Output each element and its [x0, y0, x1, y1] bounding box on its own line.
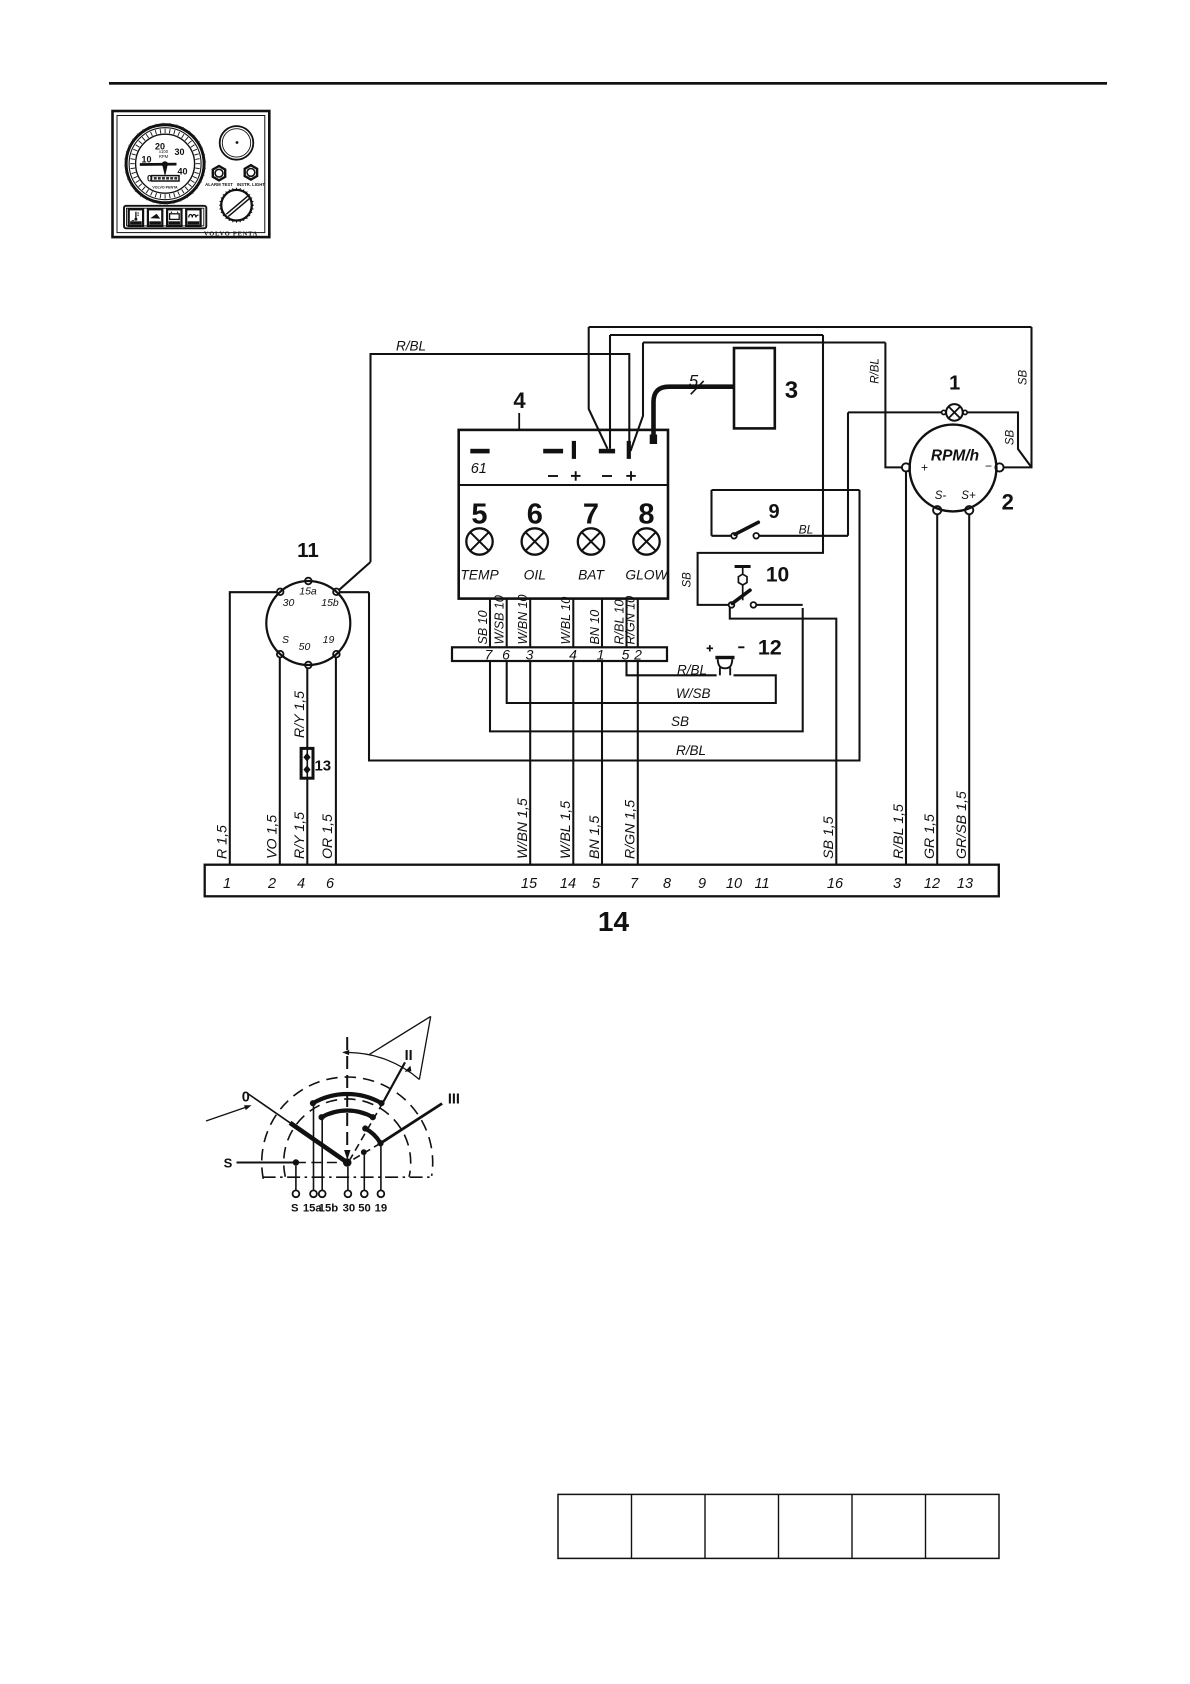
svg-text:INSTR. LIGHT: INSTR. LIGHT	[237, 182, 266, 187]
svg-text:16: 16	[827, 876, 844, 892]
svg-text:R 1,5: R 1,5	[214, 825, 230, 859]
svg-text:7: 7	[583, 499, 599, 531]
svg-text:15a: 15a	[299, 586, 317, 598]
svg-text:5: 5	[471, 499, 487, 531]
svg-text:50: 50	[299, 641, 311, 653]
svg-text:S: S	[282, 634, 289, 646]
svg-text:GR/SB 1,5: GR/SB 1,5	[954, 791, 970, 859]
svg-text:3: 3	[893, 876, 901, 892]
svg-text:3: 3	[785, 377, 798, 404]
svg-text:R/GN 10: R/GN 10	[624, 596, 638, 645]
svg-text:30: 30	[174, 147, 184, 157]
svg-text:50: 50	[358, 1203, 371, 1215]
svg-text:GLOW: GLOW	[625, 568, 669, 583]
svg-text:30: 30	[283, 597, 295, 609]
svg-text:5: 5	[689, 372, 699, 391]
svg-text:7: 7	[485, 647, 494, 663]
svg-text:W/BN 1,5: W/BN 1,5	[515, 798, 531, 859]
svg-text:0: 0	[242, 1090, 250, 1106]
svg-text:R/BL: R/BL	[396, 339, 426, 354]
svg-text:S-: S-	[935, 490, 947, 502]
svg-text:11: 11	[297, 539, 319, 562]
svg-text:RPM/h: RPM/h	[931, 448, 979, 465]
svg-text:W/BN 10: W/BN 10	[516, 594, 530, 644]
svg-text:SB: SB	[1018, 370, 1030, 386]
svg-text:4: 4	[513, 388, 526, 413]
svg-text:R/BL: R/BL	[676, 743, 706, 758]
svg-text:S: S	[291, 1203, 299, 1215]
svg-text:61: 61	[471, 461, 487, 477]
svg-text:S: S	[224, 1155, 233, 1170]
svg-text:OR 1,5: OR 1,5	[320, 814, 336, 859]
svg-text:2: 2	[1002, 489, 1014, 514]
svg-text:4: 4	[569, 647, 577, 663]
svg-text:14: 14	[598, 906, 630, 937]
svg-text:4: 4	[297, 876, 305, 892]
svg-text:+: +	[921, 461, 928, 475]
svg-text:2: 2	[267, 876, 276, 892]
svg-text:III: III	[448, 1092, 460, 1108]
svg-text:W/SB 10: W/SB 10	[493, 595, 507, 644]
svg-text:R/BL 1,5: R/BL 1,5	[891, 804, 907, 859]
svg-text:RPM: RPM	[159, 154, 169, 159]
svg-text:11: 11	[754, 876, 769, 892]
svg-text:19: 19	[375, 1203, 388, 1215]
svg-text:8: 8	[663, 876, 671, 892]
svg-text:6: 6	[527, 499, 543, 531]
svg-text:OIL: OIL	[524, 568, 546, 583]
svg-text:19: 19	[323, 634, 335, 646]
svg-text:R/BL: R/BL	[677, 663, 707, 678]
svg-text:W/SB: W/SB	[676, 686, 711, 701]
svg-text:9: 9	[698, 876, 706, 892]
svg-text:R/Y 1,5: R/Y 1,5	[292, 812, 308, 859]
svg-text:3: 3	[526, 647, 534, 663]
svg-text:1: 1	[597, 647, 605, 663]
svg-text:6: 6	[326, 876, 335, 892]
svg-text:13: 13	[957, 876, 973, 892]
svg-text:1: 1	[949, 373, 960, 395]
svg-text:W/BL 1,5: W/BL 1,5	[558, 801, 574, 859]
svg-text:15: 15	[521, 876, 538, 892]
svg-text:II: II	[405, 1048, 413, 1064]
svg-text:ALARM TEST: ALARM TEST	[205, 182, 233, 187]
svg-text:W/BL 10: W/BL 10	[559, 597, 573, 645]
svg-text:13: 13	[314, 757, 331, 774]
svg-text:−: −	[985, 459, 992, 473]
svg-text:SB: SB	[1005, 430, 1017, 446]
svg-text:2: 2	[633, 647, 642, 663]
svg-text:15b: 15b	[319, 1203, 339, 1215]
svg-text:SB: SB	[682, 572, 694, 588]
svg-text:14: 14	[560, 876, 576, 892]
svg-text:R/Y 1,5: R/Y 1,5	[292, 691, 308, 738]
svg-text:BL: BL	[799, 523, 814, 537]
svg-text:VOLVO PENTA: VOLVO PENTA	[152, 185, 178, 189]
svg-text:12: 12	[758, 636, 782, 660]
svg-text:R/BL: R/BL	[870, 358, 882, 384]
svg-text:10: 10	[726, 876, 742, 892]
svg-text:5: 5	[592, 876, 601, 892]
svg-text:VO 1,5: VO 1,5	[265, 815, 281, 859]
svg-text:5: 5	[622, 647, 630, 663]
svg-text:BN 1,5: BN 1,5	[587, 816, 603, 859]
svg-text:VOLVO PENTA: VOLVO PENTA	[204, 230, 258, 237]
svg-text:30: 30	[343, 1203, 356, 1215]
svg-text:10: 10	[766, 564, 789, 587]
svg-text:15b: 15b	[321, 597, 339, 609]
svg-text:R/GN 1,5: R/GN 1,5	[623, 800, 639, 859]
svg-text:12: 12	[924, 876, 940, 892]
svg-text:S+: S+	[961, 490, 976, 502]
svg-text:7: 7	[630, 876, 639, 892]
svg-text:6: 6	[502, 647, 510, 663]
svg-text:8: 8	[638, 499, 654, 531]
svg-text:SB 1,5: SB 1,5	[821, 816, 837, 859]
svg-text:SB: SB	[671, 714, 689, 729]
svg-text:BAT: BAT	[578, 568, 605, 583]
svg-text:TEMP: TEMP	[460, 568, 499, 583]
svg-text:9: 9	[768, 501, 779, 523]
svg-text:GR 1,5: GR 1,5	[922, 814, 938, 859]
svg-text:SB 10: SB 10	[476, 610, 490, 644]
svg-text:1: 1	[223, 876, 231, 892]
svg-text:BN 10: BN 10	[588, 610, 602, 645]
